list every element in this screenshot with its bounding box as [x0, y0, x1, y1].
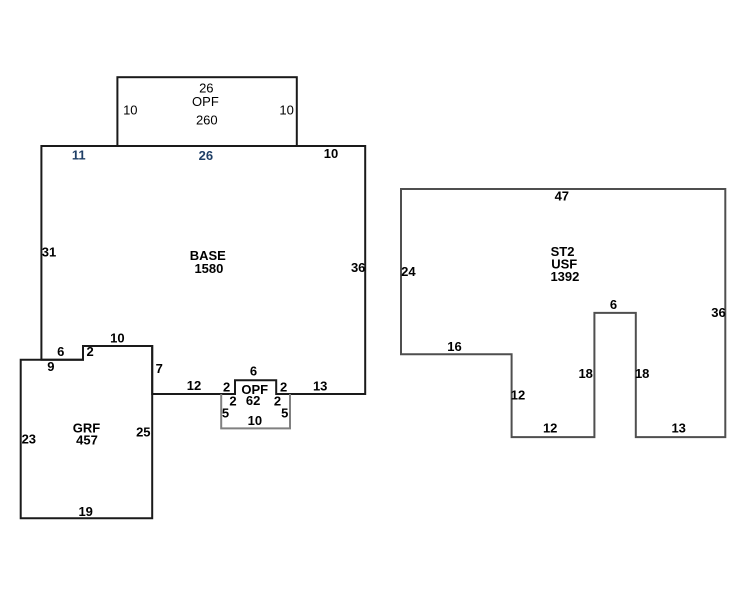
svg-text:18: 18 [635, 366, 649, 381]
svg-text:18: 18 [578, 366, 592, 381]
svg-text:6: 6 [57, 344, 64, 359]
svg-text:26: 26 [199, 148, 213, 163]
svg-text:457: 457 [76, 433, 98, 448]
svg-text:62: 62 [246, 393, 260, 408]
svg-text:10: 10 [324, 146, 338, 161]
svg-text:2: 2 [229, 393, 236, 408]
svg-text:19: 19 [78, 504, 92, 519]
svg-text:7: 7 [156, 361, 163, 376]
svg-text:36: 36 [711, 305, 725, 320]
svg-text:23: 23 [22, 431, 36, 446]
svg-text:260: 260 [196, 113, 218, 128]
svg-text:11: 11 [72, 148, 86, 163]
GRF garage outline [21, 346, 153, 518]
svg-text:13: 13 [671, 420, 685, 435]
ST2 upper storey outline [401, 189, 725, 437]
svg-text:16: 16 [447, 339, 461, 354]
svg-text:10: 10 [248, 413, 262, 428]
OPF porch 260 outline [117, 77, 296, 146]
BASE footprint outline [41, 146, 365, 394]
svg-text:12: 12 [543, 420, 557, 435]
svg-text:6: 6 [610, 297, 617, 312]
svg-text:2: 2 [274, 393, 281, 408]
svg-text:10: 10 [110, 331, 124, 346]
svg-text:25: 25 [136, 425, 150, 440]
svg-text:5: 5 [222, 406, 229, 421]
svg-text:10: 10 [279, 103, 293, 118]
svg-text:36: 36 [351, 260, 365, 275]
svg-text:1392: 1392 [550, 269, 579, 284]
svg-text:5: 5 [281, 406, 288, 421]
svg-text:47: 47 [555, 189, 569, 204]
svg-text:12: 12 [187, 378, 201, 393]
svg-text:31: 31 [42, 245, 56, 260]
svg-text:OPF: OPF [192, 94, 219, 109]
svg-text:9: 9 [47, 359, 54, 374]
svg-text:2: 2 [86, 344, 93, 359]
svg-text:12: 12 [511, 388, 525, 403]
svg-text:24: 24 [401, 264, 416, 279]
svg-text:6: 6 [250, 364, 257, 379]
OPF porch 62 lower gray outline [221, 394, 290, 428]
svg-text:13: 13 [313, 378, 327, 393]
svg-text:10: 10 [123, 103, 137, 118]
svg-text:1580: 1580 [194, 261, 223, 276]
